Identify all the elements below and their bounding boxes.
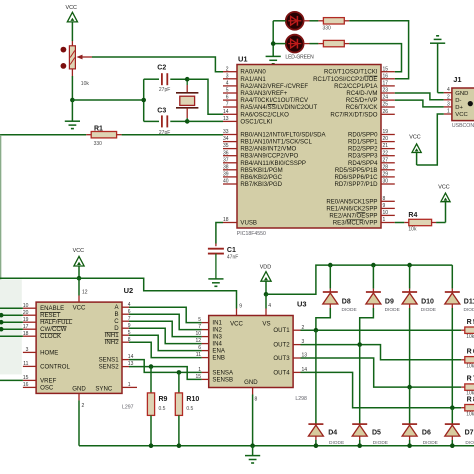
- svg-text:RB6/KBI2/PGC: RB6/KBI2/PGC: [240, 174, 282, 181]
- svg-text:ENB: ENB: [212, 355, 225, 362]
- wire U2 INH2 to ENB: [129, 342, 202, 357]
- wire OUT3 node to D6: [409, 387, 411, 424]
- svg-text:D4: D4: [328, 430, 337, 437]
- svg-text:L298: L298: [295, 396, 307, 402]
- svg-text:C3: C3: [157, 108, 166, 115]
- svg-text:RB7/KBI3/PGD: RB7/KBI3/PGD: [240, 181, 282, 188]
- svg-text:D7: D7: [465, 430, 474, 437]
- svg-text:RA0/AN0: RA0/AN0: [240, 69, 266, 76]
- svg-text:RD4/SPP4: RD4/SPP4: [348, 160, 378, 167]
- wire U2 GND pin 2 down: [79, 393, 85, 445]
- svg-text:23: 23: [383, 88, 389, 94]
- svg-text:ENA: ENA: [212, 348, 225, 355]
- svg-text:4: 4: [447, 87, 450, 93]
- svg-text:1: 1: [447, 109, 450, 115]
- wire U1 VUSB to C1: [216, 223, 223, 247]
- svg-text:DIODE: DIODE: [421, 307, 436, 313]
- svg-text:10k: 10k: [466, 363, 474, 369]
- svg-text:LED-GREEN: LED-GREEN: [285, 54, 314, 60]
- wire OUT4 node to D7: [451, 408, 453, 424]
- svg-text:RC2/CCP1/P1A: RC2/CCP1/P1A: [334, 83, 378, 90]
- svg-text:DIODE: DIODE: [464, 307, 474, 313]
- svg-text:2: 2: [447, 94, 450, 100]
- wire D10 anode column: [409, 308, 411, 387]
- resistor R6 10k (load): [461, 348, 474, 369]
- svg-text:CONTROL: CONTROL: [40, 363, 70, 370]
- svg-text:CW/CCW: CW/CCW: [40, 326, 67, 333]
- svg-text:22: 22: [383, 150, 389, 156]
- svg-text:IN4: IN4: [212, 341, 222, 348]
- wire pot wiper to U1 pin 2 (RA0): [92, 57, 223, 72]
- svg-text:2: 2: [226, 66, 229, 72]
- wire D9 anode to OUT2 node: [360, 308, 374, 345]
- diode D4: [308, 424, 344, 446]
- svg-text:29: 29: [383, 172, 389, 178]
- svg-text:0.5: 0.5: [186, 406, 193, 412]
- svg-text:J1: J1: [453, 75, 461, 84]
- node OUT3/D10/D6 junction: [407, 385, 412, 390]
- wire C2-C3 left vertical: [143, 79, 145, 121]
- wire U2 B to IN2: [129, 314, 202, 329]
- node VCC junction: [77, 276, 82, 281]
- svg-text:3: 3: [447, 101, 450, 107]
- diode D7: [445, 424, 474, 446]
- resistor R5 10k (load): [461, 319, 474, 340]
- resistor R4 10k: [395, 212, 446, 233]
- svg-text:D9: D9: [385, 298, 394, 305]
- diode D10: [402, 265, 436, 313]
- svg-text:35: 35: [223, 143, 229, 149]
- wire VDD junction to U3 VS pin 4: [266, 294, 271, 315]
- diode D11: [445, 265, 474, 313]
- wire U2 SENS2 to U3 SENSB: [129, 367, 202, 380]
- svg-text:R10: R10: [186, 396, 199, 403]
- svg-text:B: B: [115, 311, 119, 318]
- node OSC1 junction (C3/crystal): [185, 119, 190, 124]
- LED D2 (green LED bottom): [286, 35, 304, 53]
- svg-text:C2: C2: [157, 65, 166, 72]
- svg-text:RESET: RESET: [40, 312, 61, 319]
- svg-text:RA3/AN3/VREF+: RA3/AN3/VREF+: [240, 90, 287, 97]
- svg-text:RD3/SPP3: RD3/SPP3: [348, 153, 378, 160]
- svg-text:PIC18F4550: PIC18F4550: [237, 231, 266, 237]
- svg-text:37: 37: [223, 157, 229, 163]
- svg-text:C: C: [114, 318, 119, 325]
- wire VDD junction to diode supply rail: [266, 265, 452, 294]
- svg-text:RC6/TX/CK: RC6/TX/CK: [346, 104, 378, 111]
- wire U3 OUT1 row: [301, 329, 462, 331]
- resistor R10 0.5: [175, 372, 199, 445]
- svg-text:13: 13: [223, 116, 229, 122]
- svg-text:20: 20: [383, 136, 389, 142]
- ground (bottom rail): [245, 446, 260, 463]
- svg-text:HOME: HOME: [40, 349, 58, 356]
- svg-text:8: 8: [255, 397, 258, 403]
- left edge highlight band: [0, 279, 22, 374]
- svg-text:VCC: VCC: [409, 135, 420, 141]
- power flag VCC (R4 pull-up): [438, 185, 450, 223]
- svg-text:RE2/AN7/OESPP: RE2/AN7/OESPP: [329, 212, 377, 219]
- svg-text:C1: C1: [227, 247, 236, 254]
- wires U2 control inputs to left edge: [0, 308, 23, 380]
- svg-text:ENABLE: ENABLE: [40, 305, 64, 312]
- node RESET edge junction: [0, 313, 4, 318]
- svg-text:RC4/D-/VM: RC4/D-/VM: [346, 90, 377, 97]
- svg-text:RB2/AN8/INT2/VMO: RB2/AN8/INT2/VMO: [240, 146, 296, 153]
- node HALF/FULL edge junction: [0, 320, 4, 325]
- capacitor C1 47nF: [208, 247, 238, 279]
- wire pot bottom to junction: [71, 69, 73, 100]
- svg-text:10: 10: [23, 303, 29, 309]
- svg-text:8: 8: [383, 196, 386, 202]
- svg-text:16: 16: [383, 73, 389, 79]
- potentiometer RV1 10k: [61, 46, 93, 87]
- svg-text:2: 2: [82, 403, 85, 409]
- svg-text:D+: D+: [455, 105, 463, 111]
- svg-text:D-: D-: [455, 98, 461, 104]
- svg-text:30: 30: [383, 179, 389, 185]
- svg-text:SENSB: SENSB: [212, 376, 233, 383]
- svg-text:VCC: VCC: [73, 305, 86, 312]
- wire U3 GND pin 8 down: [253, 388, 258, 446]
- svg-text:RC1/T1OSI/CCP2/UOE: RC1/T1OSI/CCP2/UOE: [313, 76, 377, 83]
- svg-text:27pF: 27pF: [159, 87, 170, 93]
- svg-text:RA2/AN2/VREF-/CVREF: RA2/AN2/VREF-/CVREF: [240, 83, 308, 90]
- svg-text:OUT3: OUT3: [273, 355, 290, 362]
- wire bottom LED resistor to U1 pin 15 (RC0): [349, 44, 401, 72]
- svg-text:VCC: VCC: [73, 248, 84, 254]
- node rail/D7: [450, 443, 455, 448]
- diode D6: [402, 424, 438, 446]
- svg-text:OUT1: OUT1: [273, 327, 290, 334]
- node rail/R10: [177, 443, 182, 448]
- svg-text:U2: U2: [124, 286, 134, 295]
- svg-text:IN1: IN1: [212, 320, 222, 327]
- node rail/D6: [407, 443, 412, 448]
- svg-text:10k: 10k: [466, 334, 474, 340]
- node VDD/VS junction: [264, 292, 269, 297]
- node rail/D5: [357, 443, 362, 448]
- label LED-GREEN: [285, 54, 314, 60]
- svg-text:R8: R8: [467, 396, 474, 403]
- svg-text:5: 5: [226, 88, 229, 94]
- svg-text:RB5/KBI1/PGM: RB5/KBI1/PGM: [240, 167, 282, 174]
- svg-text:D10: D10: [421, 298, 434, 305]
- svg-text:VREF: VREF: [40, 377, 57, 384]
- ground (pot): [65, 121, 80, 128]
- svg-text:R5: R5: [467, 319, 474, 326]
- svg-text:R4: R4: [408, 212, 417, 219]
- svg-text:RC0/T1OSO/T1CKI: RC0/T1OSO/T1CKI: [324, 69, 378, 76]
- wire D8 anode to OUT1 node: [316, 308, 330, 330]
- svg-text:17: 17: [23, 324, 29, 330]
- svg-text:RA5/AN4/SS/LVDIN/C2OUT: RA5/AN4/SS/LVDIN/C2OUT: [240, 104, 317, 111]
- svg-text:10k: 10k: [466, 411, 474, 417]
- capacitor C3 27pF: [144, 108, 188, 136]
- svg-text:15: 15: [383, 66, 389, 72]
- svg-text:9: 9: [383, 203, 386, 209]
- svg-text:RE0/AN5/CK1SPP: RE0/AN5/CK1SPP: [326, 198, 377, 205]
- resistor 330 (bottom LED): [304, 40, 350, 46]
- power flag VCC (U2 supply): [73, 248, 84, 278]
- ground (above J1, inverted): [430, 36, 445, 93]
- svg-text:RA1/AN1: RA1/AN1: [240, 76, 266, 83]
- svg-text:VDD: VDD: [260, 265, 271, 271]
- resistor R7 10k (load): [461, 376, 474, 397]
- svg-text:GND: GND: [455, 91, 468, 97]
- node rail/U3 GND: [250, 443, 255, 448]
- svg-text:330: 330: [323, 25, 332, 31]
- diode D5: [352, 424, 388, 446]
- resistor R1 330: [86, 126, 121, 148]
- resistor R9 0.5: [147, 367, 167, 446]
- svg-text:21: 21: [383, 143, 389, 149]
- svg-text:12: 12: [82, 290, 88, 296]
- node OUT2/D9/D5 junction: [357, 342, 362, 347]
- svg-text:3: 3: [226, 73, 229, 79]
- wire U1 RC4 to J1 D-: [395, 93, 444, 100]
- capacitor C2 27pF: [144, 65, 188, 94]
- svg-text:9: 9: [239, 304, 242, 310]
- svg-text:RD5/SPP5/P1B: RD5/SPP5/P1B: [335, 167, 378, 174]
- svg-text:VCC: VCC: [230, 320, 243, 327]
- svg-text:DIODE: DIODE: [385, 307, 400, 313]
- svg-text:6: 6: [226, 95, 229, 101]
- svg-text:HALF/FULL: HALF/FULL: [40, 319, 73, 326]
- svg-text:L297: L297: [122, 404, 134, 410]
- svg-text:20: 20: [23, 310, 29, 316]
- svg-text:USBCONN: USBCONN: [452, 123, 474, 129]
- svg-text:IN3: IN3: [212, 334, 222, 341]
- wire R1 to U1 pin 33 (RB0): [122, 134, 223, 136]
- wire top LED resistor to U1 pin 16 (RC1): [349, 21, 408, 79]
- svg-text:GND: GND: [244, 379, 258, 386]
- svg-text:19: 19: [23, 317, 29, 323]
- wire LED cathodes to ground: [273, 21, 286, 57]
- svg-text:DIODE: DIODE: [342, 307, 357, 313]
- power flag VDD: [260, 265, 271, 295]
- svg-text:33: 33: [223, 129, 229, 135]
- svg-text:SENS1: SENS1: [99, 357, 120, 364]
- wire OUT1 node to D4: [315, 330, 317, 424]
- svg-text:VS: VS: [262, 320, 270, 327]
- wire U2 C to IN3: [129, 321, 202, 336]
- svg-text:RE3/MCLR/VPP: RE3/MCLR/VPP: [333, 220, 378, 227]
- svg-text:27: 27: [383, 157, 389, 163]
- wire VCC junction to U2 pin 12: [79, 278, 88, 302]
- svg-text:RB4/AN11/KBI0/CSSPP: RB4/AN11/KBI0/CSSPP: [240, 160, 306, 167]
- connector J1 USBCONN: [444, 75, 474, 129]
- node OUT1/D8/D4 junction: [314, 328, 319, 333]
- ground (C1): [208, 279, 223, 286]
- IC U2 L297: [23, 286, 137, 411]
- node C2/C3/pot junction: [141, 98, 146, 103]
- svg-text:OUT2: OUT2: [273, 342, 290, 349]
- wire U2 D to IN4: [129, 328, 202, 343]
- wire R1 to left VCC rail: [0, 135, 86, 374]
- node CW/CCW edge junction: [0, 327, 4, 332]
- wire OUT2 node to D5: [359, 345, 361, 425]
- svg-text:SENS2: SENS2: [99, 364, 120, 371]
- svg-text:CLOCK: CLOCK: [40, 333, 61, 340]
- svg-text:47nF: 47nF: [227, 254, 238, 260]
- diode D9: [366, 265, 400, 313]
- svg-text:330: 330: [94, 141, 103, 147]
- svg-text:GND: GND: [72, 385, 86, 392]
- svg-text:RD2/SPP2: RD2/SPP2: [348, 146, 378, 153]
- node rail/R9: [149, 443, 154, 448]
- svg-text:RD1/SPP1: RD1/SPP1: [348, 139, 378, 146]
- svg-text:39: 39: [223, 172, 229, 178]
- node pot/C2-C3 junction: [70, 98, 144, 103]
- node SENSB/R9 junction: [149, 364, 154, 369]
- svg-text:26: 26: [383, 109, 389, 115]
- svg-text:D5: D5: [372, 430, 381, 437]
- svg-text:18: 18: [223, 217, 229, 223]
- svg-text:10: 10: [383, 210, 389, 216]
- svg-text:34: 34: [223, 136, 229, 142]
- wire D11 anode column: [451, 308, 453, 408]
- wire OSC2 junction to U1 pin 14: [187, 79, 223, 114]
- wire VCC rail to U3 VCC pin 9: [0, 278, 242, 315]
- ground (LEDs): [266, 56, 281, 63]
- IC U1 PIC18F4550: [223, 55, 395, 237]
- resistor 330 (top LED): [304, 18, 350, 32]
- svg-text:INH1: INH1: [105, 332, 119, 339]
- svg-text:R7: R7: [467, 376, 474, 383]
- wire junction to ground: [71, 100, 73, 121]
- wire J1 VCC pin to VCC flag: [417, 114, 444, 165]
- diode D8: [323, 265, 357, 313]
- resistor R8 10k (load): [461, 396, 474, 417]
- wire U2 INH1 to ENA: [129, 335, 202, 350]
- svg-text:IN2: IN2: [212, 327, 222, 334]
- node rail/D4: [314, 443, 319, 448]
- svg-text:RD6/SPP6/P1C: RD6/SPP6/P1C: [334, 174, 378, 181]
- svg-text:11: 11: [23, 361, 28, 367]
- wire U1 RC5 to J1 D+: [395, 100, 444, 107]
- svg-text:U1: U1: [238, 55, 248, 64]
- svg-text:D11: D11: [464, 298, 474, 305]
- svg-text:15: 15: [23, 375, 29, 381]
- node rail/D8: [328, 263, 333, 268]
- IC U3 L298: [195, 299, 307, 402]
- svg-text:18: 18: [23, 331, 29, 337]
- svg-text:24: 24: [383, 95, 389, 101]
- svg-text:RB0/AN12/INT0/FLT0/SDI/SDA: RB0/AN12/INT0/FLT0/SDI/SDA: [240, 132, 326, 139]
- svg-text:10k: 10k: [408, 227, 417, 233]
- svg-text:RC7/RX/DT/SDO: RC7/RX/DT/SDO: [330, 111, 377, 118]
- svg-text:VCC: VCC: [455, 112, 468, 118]
- wire ground rail (bottom): [79, 445, 474, 447]
- svg-text:U3: U3: [297, 299, 307, 308]
- wire OSC1 junction to U1 pin 13: [187, 120, 223, 122]
- svg-text:VUSB: VUSB: [240, 220, 257, 227]
- svg-text:28: 28: [383, 164, 389, 170]
- svg-text:27pF: 27pF: [159, 130, 170, 136]
- power flag VCC (J1): [409, 135, 421, 165]
- svg-text:4: 4: [226, 81, 229, 87]
- crystal X1: [176, 79, 198, 121]
- svg-text:SENSA: SENSA: [212, 369, 234, 376]
- LED D1 (green LED top): [286, 12, 304, 30]
- svg-text:14: 14: [223, 109, 229, 115]
- svg-text:D: D: [114, 325, 119, 332]
- node SENSA/R10 junction: [177, 370, 182, 375]
- svg-text:R9: R9: [159, 396, 168, 403]
- svg-text:OUT4: OUT4: [273, 369, 290, 376]
- svg-text:RB3/AN9/CCP2/VPO: RB3/AN9/CCP2/VPO: [240, 153, 298, 160]
- node OUT4/D11/D7 junction: [450, 405, 455, 410]
- svg-text:INH2: INH2: [105, 339, 119, 346]
- svg-text:RB1/AN10/INT1/SCK/SCL: RB1/AN10/INT1/SCK/SCL: [240, 139, 312, 146]
- wire U3 OUT3 row: [301, 358, 462, 387]
- svg-text:36: 36: [223, 150, 229, 156]
- wire U3 OUT2 row: [301, 345, 462, 360]
- svg-text:17: 17: [383, 81, 389, 87]
- node LED cathode junction: [271, 41, 276, 46]
- svg-text:D6: D6: [422, 430, 431, 437]
- svg-text:7: 7: [226, 102, 229, 108]
- svg-text:RA6/OSC2/CLKO: RA6/OSC2/CLKO: [240, 111, 289, 118]
- power flag VCC (potentiometer supply): [66, 5, 78, 46]
- svg-text:D8: D8: [342, 298, 351, 305]
- svg-text:1: 1: [128, 382, 131, 388]
- svg-text:OSC1/CLKI: OSC1/CLKI: [240, 118, 272, 125]
- svg-text:40: 40: [223, 179, 229, 185]
- svg-text:R6: R6: [467, 348, 474, 355]
- svg-text:16: 16: [23, 382, 29, 388]
- svg-text:4: 4: [268, 303, 271, 309]
- wire U2 A to IN1: [129, 307, 202, 322]
- svg-text:25: 25: [383, 102, 389, 108]
- svg-text:10k: 10k: [81, 81, 90, 87]
- node rail/D9: [371, 263, 376, 268]
- svg-text:19: 19: [383, 129, 389, 135]
- svg-text:1: 1: [383, 217, 386, 223]
- svg-text:3: 3: [26, 347, 29, 353]
- node OSC2 junction (C2/crystal): [185, 77, 190, 82]
- node rail/D10: [407, 263, 412, 268]
- svg-text:RE1/AN6/CK2SPP: RE1/AN6/CK2SPP: [326, 205, 377, 212]
- svg-text:RD7/SPP7/P1D: RD7/SPP7/P1D: [334, 181, 378, 188]
- svg-text:38: 38: [223, 164, 229, 170]
- svg-text:OSC: OSC: [40, 384, 54, 391]
- svg-text:0.5: 0.5: [159, 406, 166, 412]
- svg-text:VCC: VCC: [66, 5, 77, 11]
- wire U2 SENS1 to U3 SENSA: [129, 360, 202, 373]
- svg-text:SYNC: SYNC: [95, 385, 113, 392]
- svg-text:RD0/SPP0: RD0/SPP0: [348, 132, 378, 139]
- svg-text:VCC: VCC: [438, 185, 449, 191]
- wire U3 OUT4 row: [301, 372, 462, 407]
